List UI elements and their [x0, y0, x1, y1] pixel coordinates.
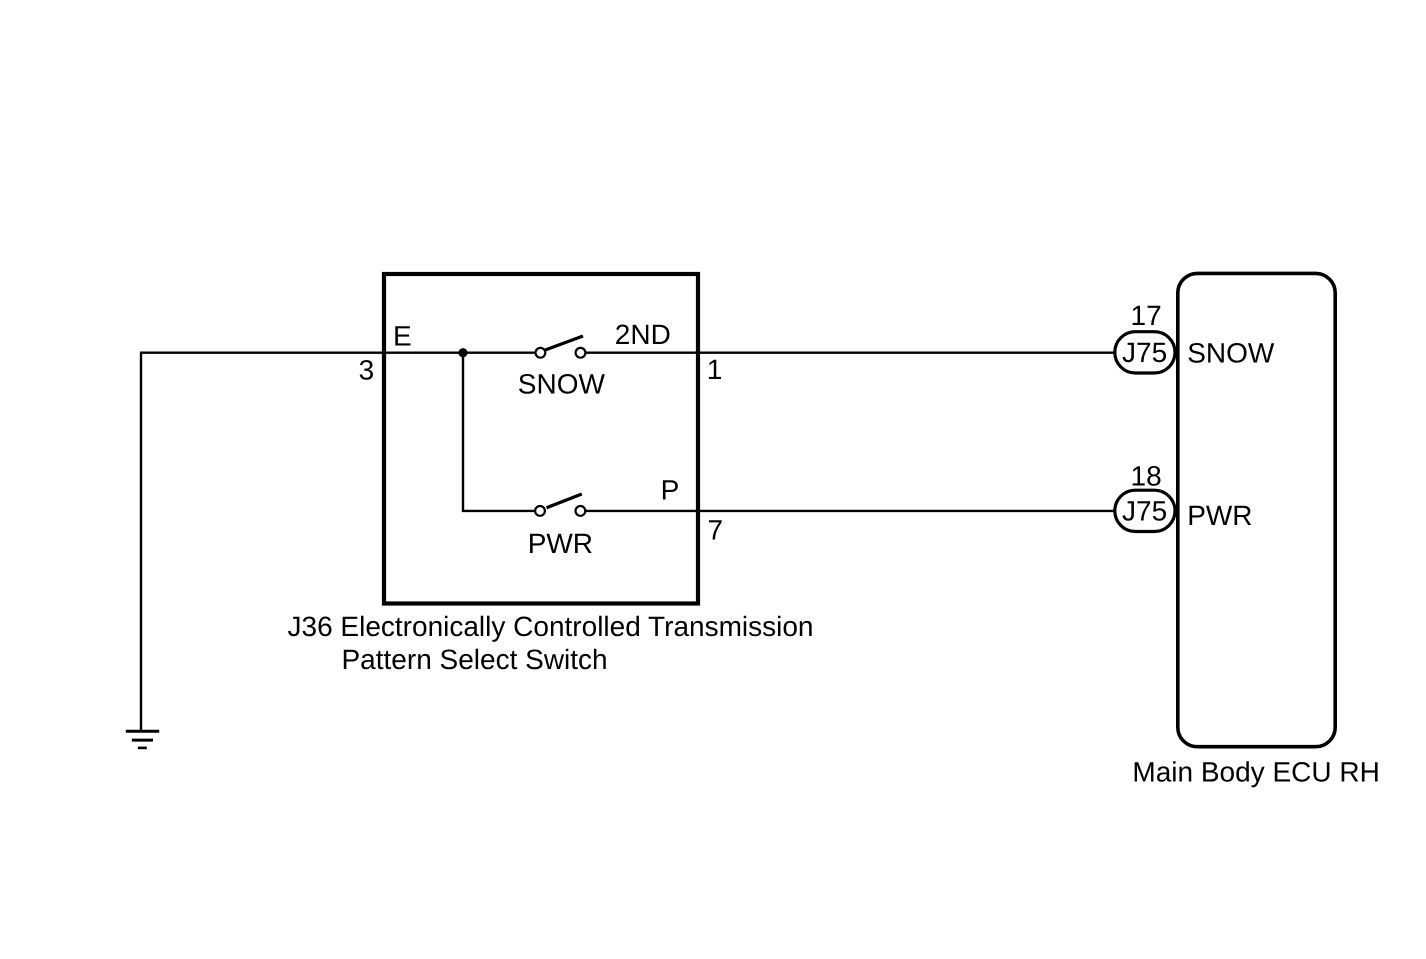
Main Body ECU box	[1178, 273, 1335, 746]
switch box J36	[384, 274, 698, 604]
ground	[126, 731, 159, 748]
svg-text:P: P	[661, 474, 680, 505]
wire: ground lead horizontal+vertical from node E	[141, 352, 540, 732]
wire: branch from node E down to PWR switch	[463, 353, 540, 511]
svg-text:PWR: PWR	[528, 528, 593, 559]
switch SNOW lever	[545, 336, 583, 350]
connector J75 pin 18 oval	[1115, 490, 1175, 531]
wire: from 2ND contact to pin 1 and J75 pin 17	[580, 352, 1114, 354]
svg-text:1: 1	[707, 354, 723, 385]
svg-text:18: 18	[1131, 461, 1162, 492]
switch SNOW contacts	[536, 348, 546, 358]
svg-text:7: 7	[708, 515, 724, 546]
wire: from P contact to pin 7 and J75 pin 18	[580, 510, 1114, 512]
svg-text:2ND: 2ND	[615, 319, 671, 350]
switch PWR contacts	[535, 506, 545, 516]
svg-text:SNOW: SNOW	[1187, 338, 1275, 369]
svg-text:17: 17	[1131, 300, 1162, 331]
svg-text:E: E	[393, 321, 412, 352]
svg-text:J75: J75	[1122, 337, 1167, 368]
svg-text:Main Body ECU RH: Main Body ECU RH	[1132, 756, 1379, 787]
svg-text:3: 3	[359, 354, 375, 385]
svg-text:J75: J75	[1122, 496, 1167, 527]
node E junction dot	[458, 348, 467, 357]
svg-text:PWR: PWR	[1187, 500, 1252, 531]
svg-text:SNOW: SNOW	[518, 369, 606, 400]
switch PWR lever	[547, 494, 582, 508]
connector J75 pin 17 oval	[1115, 332, 1175, 373]
svg-text:Pattern Select Switch: Pattern Select Switch	[342, 644, 608, 675]
svg-text:J36 Electronically Controlled: J36 Electronically Controlled Transmissi…	[288, 611, 814, 642]
